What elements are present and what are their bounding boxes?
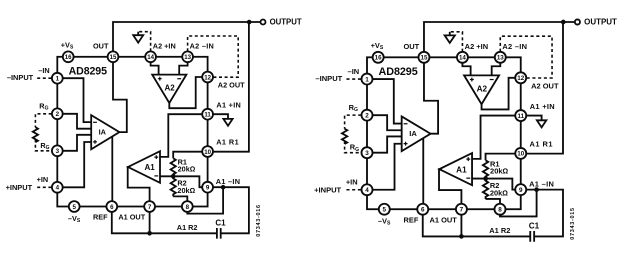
svg-text:07343-016: 07343-016	[256, 204, 262, 237]
right circuit figure 15	[314, 18, 617, 242]
svg-text:07343-015: 07343-015	[570, 207, 576, 240]
left circuit figure 16	[6, 18, 302, 239]
